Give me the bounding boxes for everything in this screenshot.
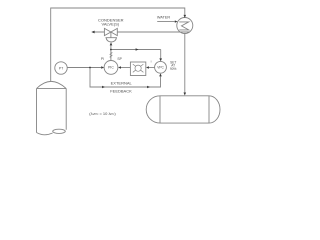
svg-text:PI: PI [101, 57, 104, 61]
svg-text:I: I [151, 59, 152, 63]
svg-text:90%: 90% [170, 67, 177, 71]
svg-text:SP: SP [117, 57, 122, 61]
svg-text:EXTERNAL: EXTERNAL [111, 80, 133, 85]
svg-text:(λVPC = 10 λPC): (λVPC = 10 λPC) [89, 111, 116, 116]
svg-text:WATER: WATER [157, 15, 171, 19]
svg-text:VPC: VPC [157, 66, 164, 70]
svg-text:FEEDBACK: FEEDBACK [110, 88, 132, 93]
svg-text:PIC: PIC [108, 66, 114, 70]
svg-text:VALVE(S): VALVE(S) [101, 22, 119, 27]
svg-text:PT: PT [59, 66, 63, 70]
